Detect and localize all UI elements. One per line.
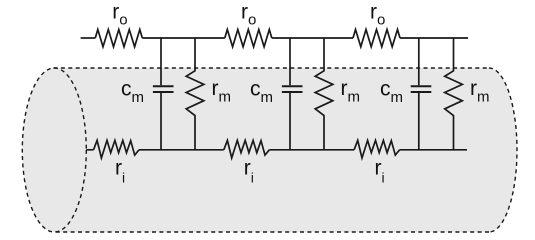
- cylinder right end-cap arc (dashed): [489, 68, 517, 232]
- capacitor c_m #1: [153, 38, 174, 150]
- capacitor c_m #3: [411, 38, 432, 150]
- capacitor c_m #2: [282, 38, 303, 150]
- wire: bottom rail segment after r_i #2: [269, 149, 354, 151]
- resistor r_o #3 (top rail): [353, 30, 400, 47]
- wire: top rail segment after r_o #2: [272, 37, 353, 39]
- resistor r_o #2 (top rail): [225, 30, 272, 47]
- resistor r_i #3 (bottom rail): [354, 140, 400, 158]
- wire: top rail left lead: [81, 37, 96, 39]
- resistor r_m #3 (membrane): [445, 38, 463, 150]
- resistor r_o #1 (top rail): [95, 30, 142, 47]
- left end-cap ellipse (dashed): [22, 68, 86, 232]
- wire: top rail segment after r_o #3: [400, 37, 468, 39]
- wire: bottom rail segment after r_i #3: [400, 149, 467, 151]
- resistor r_m #2 (membrane): [315, 38, 333, 150]
- resistor r_i #2 (bottom rail): [224, 140, 269, 158]
- cylinder body fill (cell interior): [54, 68, 518, 232]
- cylinder bottom edge (dashed): [54, 231, 490, 233]
- cylinder top edge (dashed): [54, 67, 490, 69]
- resistor r_i #1 (bottom rail): [94, 140, 140, 158]
- wire: bottom rail lead from end-cap: [86, 149, 93, 151]
- wire: bottom rail segment after r_i #1: [139, 149, 224, 151]
- resistor r_m #1 (membrane): [186, 38, 204, 150]
- wire: top rail segment after r_o #1: [142, 37, 225, 39]
